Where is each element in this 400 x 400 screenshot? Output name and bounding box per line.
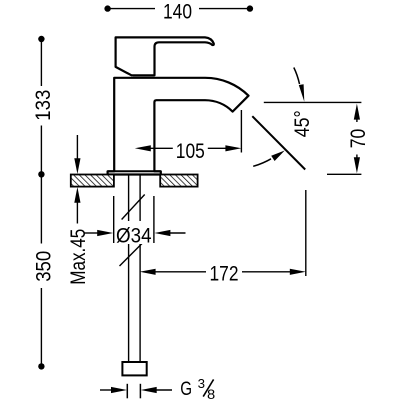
svg-text:3: 3: [198, 376, 205, 391]
dimension 133: [32, 36, 55, 175]
bottom fitting G3/8: [122, 362, 146, 375]
faucet handle: [116, 37, 214, 75]
supply pipe left line: [128, 176, 130, 363]
pipe break mark upper: [122, 195, 145, 220]
dimension Max.45: [67, 135, 90, 285]
svg-text:133: 133: [32, 90, 55, 121]
dimension 172: [140, 190, 306, 286]
svg-text:8: 8: [207, 387, 215, 400]
dimension G 3/8: [100, 376, 215, 400]
svg-text:70: 70: [347, 129, 370, 149]
flange top line: [108, 170, 161, 172]
svg-text:G: G: [180, 378, 192, 400]
svg-text:Max.45: Max.45: [67, 229, 90, 285]
svg-text:172: 172: [210, 263, 239, 286]
svg-text:105: 105: [176, 140, 205, 163]
svg-text:350: 350: [33, 251, 56, 282]
mounting deck left: [71, 175, 114, 187]
dimension 105: [135, 110, 242, 163]
faucet body and spout: [108, 78, 249, 175]
pipe break mark lower: [120, 243, 143, 266]
dimension 140: [104, 1, 253, 24]
svg-text:Ø34: Ø34: [116, 224, 152, 247]
dimension 45 degrees: [252, 68, 313, 170]
dimension 350: [33, 171, 56, 369]
svg-text:140: 140: [163, 1, 192, 24]
dimension 70: [264, 102, 370, 174]
handle bottom line: [133, 75, 155, 77]
mounting deck right: [160, 175, 197, 187]
svg-text:45°: 45°: [291, 110, 314, 137]
supply pipe right line: [139, 176, 141, 363]
dimension diameter 34: [85, 196, 186, 247]
